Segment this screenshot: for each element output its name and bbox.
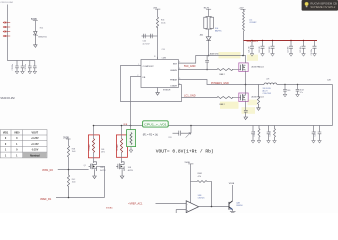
svg-text:MMBZ5V6: MMBZ5V6 [38,36,47,38]
wire [35,21,37,32]
wire [56,197,105,199]
svg-text:-0.25V: -0.25V [31,149,38,152]
capacitor C11 [15,61,19,72]
table VID settings [0,130,47,158]
ground [15,71,19,74]
svg-text:4.7u: 4.7u [300,92,303,94]
watermark banner [302,0,338,11]
capacitor C43 [312,126,316,141]
svg-text:AO4B PAK-D2: AO4B PAK-D2 [252,65,264,68]
ground [302,54,306,57]
svg-text:A47R4: A47R4 [128,169,133,172]
svg-text:+0.15V: +0.15V [31,143,39,146]
capacitor C05 bootstrap [205,56,209,70]
svg-text:5V0B1: 5V0B1 [106,208,113,210]
highlight yellow 2 [247,55,258,61]
svg-text:UGATE: UGATE [170,69,178,72]
svg-text:BAV99C: BAV99C [215,29,222,32]
wire opamp output [199,206,229,208]
ground [251,141,255,144]
svg-text:CN1 DC-IN4: CN1 DC-IN4 [0,2,13,4]
connector CN1 vertical wire [7,5,9,61]
svg-text:R1 1k00: R1 1k00 [89,144,91,150]
resistor R061 feedback [191,181,212,207]
wire FB to bus [131,77,142,130]
svg-text:VID1: VID1 [3,131,9,134]
wire [277,84,333,86]
svg-text:AD4: AD4 [200,34,203,37]
wire source M1 to phase [245,71,247,85]
svg-text:+0.25V: +0.25V [31,137,39,140]
mosfet M2 [239,93,248,102]
svg-text:1k00: 1k00 [72,182,76,184]
opamp U8 [186,201,198,213]
svg-text:C42 1u: C42 1u [270,131,272,137]
resistor R3 [130,133,132,145]
wire UGATE [178,69,217,71]
wire [208,29,210,37]
ground [33,71,37,74]
wire [232,185,234,201]
resistor R2 [120,139,122,153]
output capacitor C25 [302,41,306,54]
wire right edge [332,85,334,126]
svg-text:C24 100: C24 100 [287,46,289,52]
inductor L1 [243,9,245,40]
ground [283,94,287,97]
ground [244,117,248,120]
svg-text:AO4B PAK-D2: AO4B PAK-D2 [252,95,264,98]
capacitor C14 [33,61,37,72]
pin 8 stub [157,57,159,60]
IC ground stub [157,88,159,93]
IC U1 controller [141,60,178,88]
ground [129,150,133,153]
svg-text:SS34 DO-252: SS34 DO-252 [0,98,15,100]
ground [93,176,97,179]
connector pin mark 4 [3,35,10,37]
ground [257,108,261,111]
wire [68,157,70,169]
capacitor C04 branch [142,35,158,37]
svg-text:L2R: L2R [266,78,270,80]
svg-text:R14: R14 [40,27,43,29]
svg-text:SCHEME NV EPL2: SCHEME NV EPL2 [310,7,336,9]
svg-text:VREF_R1: VREF_R1 [40,198,52,201]
highlight box resistor R2 [116,135,127,157]
svg-text:R09: R09 [287,90,290,92]
output capacitor C24 [289,41,293,54]
svg-text:C11 10u: C11 10u [12,64,14,70]
svg-text:V5VB: V5VB [229,183,235,185]
svg-text:A04B 51R0: A04B 51R0 [210,52,219,55]
svg-text:LMV321: LMV321 [198,198,205,200]
output capacitor C22 [261,41,265,54]
resistor R06 gate [217,69,241,71]
ground [289,54,293,57]
capacitor C07 [283,85,287,95]
ground [318,141,322,144]
wire drain M1 [244,41,246,63]
output capacitor C21 [250,41,254,54]
wire [190,164,192,204]
net label green CPU1 [143,121,169,127]
wire BST bootstrap [178,56,243,64]
svg-text:Q1: Q1 [84,165,86,167]
ground [120,176,124,179]
svg-text:51.0k: 51.0k [161,23,166,25]
ground [267,141,271,144]
resistor R42 [274,126,276,141]
wire [68,139,70,146]
svg-text:Nominal: Nominal [30,154,40,157]
wire LGATE [178,85,217,98]
svg-text:C26 10u: C26 10u [311,49,313,55]
svg-text:VFB1_R2: VFB1_R2 [42,169,53,172]
wire [58,169,89,171]
resistor R08 [257,85,259,108]
svg-text:LGATE: LGATE [170,84,177,87]
svg-text:RUGVN BPOIEM CB: RUGVN BPOIEM CB [310,4,337,6]
wire PHASE [178,80,264,85]
capacitor C13 [28,61,32,72]
wire [93,126,95,164]
highlight box capacitor C_FB [127,130,136,147]
ground [312,141,316,144]
svg-text:C25 10u: C25 10u [300,46,302,52]
svg-text:PAK 2: PAK 2 [220,73,225,76]
wire COMP loop [121,66,182,102]
svg-text:C4B: C4B [101,149,105,151]
svg-text:VFB: VFB [123,124,128,126]
resistor R1 [92,139,94,153]
resistor R41 [258,126,260,141]
capacitor C12 [21,61,25,72]
svg-text:VOUT= 0.8V(1+Rt / Rb): VOUT= 0.8V(1+Rt / Rb) [156,148,214,154]
svg-text:C41 1u: C41 1u [254,131,256,137]
wire opamp plus input [176,210,186,214]
svg-text:R0B: R0B [72,149,76,151]
svg-text:C2B: C2B [327,79,331,81]
highlight yellow 4 [242,107,256,114]
highlight yellow 1 [219,52,241,58]
svg-text:R31: R31 [169,137,172,139]
svg-text:C24: C24 [162,49,165,51]
svg-text:C04: C04 [143,41,146,43]
connector pin mark 1 [3,22,10,24]
svg-text:<VREF_AC1: <VREF_AC1 [128,203,143,206]
svg-text:5V0_GND: 5V0_GND [184,65,196,68]
capacitor C42 [267,126,271,141]
wire [121,126,123,164]
resistor R22 [67,170,69,198]
ground [230,211,236,212]
svg-text:COMP/OST: COMP/OST [143,66,155,68]
ground [21,71,25,74]
diode D05 [206,37,211,41]
highlight yellow 5 [248,100,258,106]
ground [34,45,38,48]
label inductor part [263,88,272,95]
inductor L2 [264,83,277,85]
svg-text:R2 1k00: R2 1k00 [117,144,119,150]
svg-text:C21 470: C21 470 [248,46,250,52]
svg-text:CXG-PX0X: CXG-PX0X [263,93,272,95]
ground [28,71,32,74]
ground [273,141,277,144]
svg-text:PAK 2: PAK 2 [220,103,225,106]
output capacitor C26 [313,41,317,54]
svg-text:487k: 487k [101,152,105,154]
pin numbers [137,62,180,86]
connector pin mark 2 [3,26,10,28]
wire [97,166,105,197]
svg-text:R04: R04 [161,19,164,21]
bulb icon [305,2,309,6]
svg-text:ALL0Y: ALL0Y [263,90,269,93]
svg-text:L14: L14 [249,19,252,21]
svg-text:POWER1_GND: POWER1_GND [211,82,229,85]
svg-text:4.7k: 4.7k [198,176,201,178]
svg-text:VID0: VID0 [14,131,20,134]
svg-text:4u7 25V: 4u7 25V [143,44,151,46]
svg-text:C13 10u: C13 10u [25,64,27,70]
highlight yellow 3 [220,102,239,109]
ground [313,54,317,57]
transistor Q2 [116,162,124,176]
capacitor C06 [244,110,248,117]
wire 5V0_OUT red rail [244,40,318,42]
svg-text:VOUT: VOUT [31,131,38,134]
wire [157,27,159,60]
output capacitor C23 [271,41,275,54]
wire opamp minus input [156,203,187,205]
svg-text:8: 8 [154,56,155,58]
wire [208,9,210,16]
zener D1 MMBZ5V6 [33,31,37,44]
resistor/diode pair D04 [204,16,214,29]
ground [261,54,265,57]
resistor R21 [67,146,69,157]
transistor Q1 [89,162,97,176]
svg-text:R0C: R0C [72,179,76,181]
svg-text:A47R4: A47R4 [100,169,105,172]
highlight box resistor R1 [88,135,99,158]
wire [130,147,132,150]
svg-text:LDM: LDM [162,57,166,59]
svg-text:(R1 = R2 = 1k): (R1 = R2 = 1k) [143,135,158,137]
current sense R31 [173,126,192,136]
wire drain M2 [245,85,247,96]
svg-text:PHASE: PHASE [170,79,178,82]
wire source M2 [245,101,247,111]
svg-text:CR54NP: CR54NP [249,22,257,24]
svg-text:CPU1_+_V01: CPU1_+_V01 [144,123,167,127]
resistor R07 gate [217,97,241,99]
svg-text:LC1_GND: LC1_GND [184,95,196,98]
svg-text:C43 1u: C43 1u [315,131,317,137]
resistor R04 [156,17,158,28]
wire input rail [8,60,35,62]
svg-text:SYNCH: SYNCH [163,90,171,92]
ground [271,54,275,57]
ground [250,54,254,57]
wire feedback bus [94,125,333,127]
connector pin mark 3 [3,31,10,33]
ground [257,141,261,144]
mosfet M1 [239,63,248,72]
wire [157,9,159,17]
capacitor C44 [318,126,322,141]
svg-text:-: - [187,204,188,207]
svg-text:SS8050: SS8050 [236,205,242,207]
ground [296,94,300,97]
svg-text:C22 470: C22 470 [259,46,261,52]
ground [156,93,160,96]
wire [232,210,234,212]
svg-text:C23 100: C23 100 [269,46,271,52]
transistor Q4 [229,201,233,210]
svg-text:1k00: 1k00 [72,151,76,153]
capacitor C41 [251,126,255,141]
capacitor C08 [296,85,300,95]
wire [208,41,210,56]
